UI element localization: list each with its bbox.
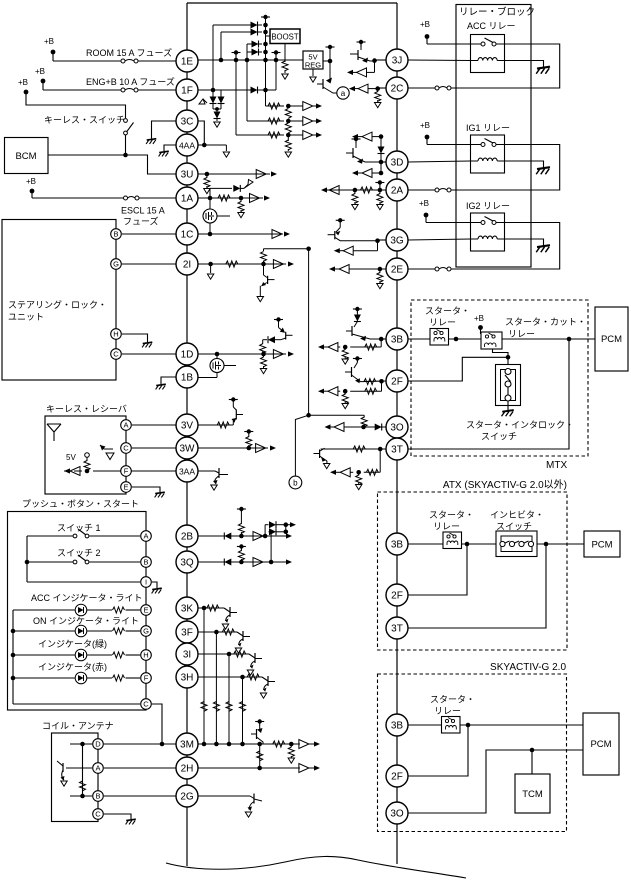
wire C coil to ground (104, 814, 131, 819)
svg-text:2H: 2H (181, 763, 194, 774)
svg-text:3H: 3H (181, 672, 194, 683)
svg-text:1C: 1C (181, 229, 194, 240)
svg-text:ESCL 15 A: ESCL 15 A (121, 206, 165, 216)
box BOOST converter (270, 29, 300, 44)
wire 3D to IG1 relay coil (408, 161, 471, 162)
wire starter relay to inhibitor (462, 543, 497, 545)
wire SKY 2F up (408, 725, 468, 776)
relay starter SKYACTIV (442, 717, 461, 734)
wire 1E to 5V REG (198, 59, 303, 61)
power +B feed for keyless switch (18, 78, 28, 94)
diode matrix vertical from 1E a (220, 32, 222, 60)
svg-text:2G: 2G (180, 791, 194, 802)
box PCM MTX (595, 307, 628, 371)
box 5V REG (303, 51, 323, 70)
node junction starter relay out (454, 337, 459, 342)
svg-text:2A: 2A (391, 185, 404, 196)
wire terminal G to 2I (122, 263, 176, 265)
fuse ENG+B 10A (121, 88, 125, 92)
node b link (295, 415, 308, 476)
receiver internal transistor on C line (100, 445, 114, 460)
connector pin 2A (386, 179, 408, 201)
connector pin 1B (176, 366, 198, 388)
svg-text:5V: 5V (66, 453, 76, 462)
connector pin 3T (386, 438, 408, 460)
box SKYACTIV dashed (378, 674, 567, 832)
power +B feed ACC relay (420, 20, 471, 44)
svg-text:スイッチ: スイッチ (481, 432, 517, 442)
box TCM (515, 774, 550, 813)
svg-text:スイッチ 1: スイッチ 1 (57, 523, 101, 533)
svg-text:G: G (143, 627, 149, 636)
connector pin 2E (386, 258, 408, 280)
wire 2H row (198, 764, 320, 773)
resistor below 2A junction b (379, 190, 381, 194)
wire ATX 2F up (408, 544, 467, 595)
wire A to 2H (104, 767, 176, 769)
connector pin 2I (176, 253, 198, 275)
wire +B to 1F (43, 89, 121, 91)
wire 3V row (198, 422, 233, 428)
svg-text:ATX (SKYACTIV-G 2.0以外): ATX (SKYACTIV-G 2.0以外) (443, 479, 567, 491)
connector pin 2H (176, 757, 198, 779)
transistor at 3V (229, 397, 243, 425)
svg-text:スタータ・インタロック・: スタータ・インタロック・ (466, 420, 574, 430)
wire 3AA row (198, 468, 228, 490)
svg-text:3I: 3I (183, 649, 191, 660)
wire 3T left (321, 446, 386, 452)
ground arrow below (352, 205, 358, 210)
svg-text:1B: 1B (181, 372, 194, 383)
svg-text:3Q: 3Q (180, 557, 194, 568)
wire ACC coil to ground (505, 61, 544, 68)
node a (337, 87, 349, 99)
ground IG1 relay (537, 167, 550, 169)
svg-text:3C: 3C (181, 116, 194, 127)
svg-text:スタータ・: スタータ・ (430, 695, 475, 705)
signal out 3B (318, 339, 381, 352)
connector pin 1D (176, 343, 198, 365)
wire 2G row with transistor (198, 794, 262, 818)
svg-text:B: B (95, 792, 100, 801)
wire common to I (27, 581, 140, 583)
wire +B to keyless switch (26, 92, 126, 118)
svg-text:スタータ・: スタータ・ (425, 306, 470, 316)
transistor below 2I (257, 264, 274, 302)
wire ATX 3B to starter relay (408, 543, 443, 545)
power tap stub at 276 (272, 52, 281, 54)
switch starter interlock (496, 365, 521, 406)
svg-text:3B: 3B (391, 539, 404, 550)
svg-text:+B: +B (474, 314, 484, 323)
wire IG2 switch to 2E (451, 223, 560, 270)
terminal A (121, 420, 132, 431)
terminal H (111, 329, 122, 340)
terminal A (141, 531, 152, 542)
relay IG1 (471, 135, 505, 173)
node junction switch2 tap (25, 560, 30, 565)
relay starter cut (481, 332, 502, 349)
node junction SKY 2F tap (466, 723, 471, 728)
svg-text:1D: 1D (181, 349, 194, 360)
connector pin 2B (176, 525, 198, 547)
wire C to 3M net (152, 704, 162, 744)
wire left main bus of push button start unit (186, 3, 188, 866)
wire indicator common feed (12, 610, 14, 704)
svg-text:+B: +B (26, 177, 36, 186)
svg-text:3M: 3M (180, 739, 194, 750)
switch keyless (124, 119, 134, 135)
diode matrix vertical from 1E b (246, 44, 248, 60)
wire D internal (70, 743, 92, 745)
signal out below 3J (347, 61, 375, 77)
ground at 3C (147, 139, 157, 140)
resistor coil antenna (80, 781, 86, 791)
wire starter relay to cut relay (449, 338, 482, 340)
wire 4AA to ground (164, 145, 176, 151)
wire 2A left with dividers (321, 186, 386, 195)
relay ACC (471, 35, 505, 73)
wire internal resistor leg (82, 744, 84, 796)
wire switch common (26, 536, 28, 582)
ground at steering lock H (143, 342, 153, 343)
wire I to ground (152, 582, 157, 588)
diode row3 (247, 43, 262, 45)
ground arrow below b (377, 205, 383, 210)
wire starter relay to PCM SKY (460, 724, 583, 726)
svg-text:E: E (143, 606, 148, 615)
connector pin 1E (176, 50, 198, 72)
wire top link between buses (187, 2, 397, 4)
connector pin 3C (176, 110, 198, 132)
wire 3C to 4AA link (198, 121, 204, 145)
resistor in receiver 5V (84, 461, 90, 471)
svg-text:リレー: リレー (508, 329, 535, 339)
wire 1B to FET (197, 377, 217, 379)
transistor at a-circle (317, 61, 337, 93)
transistor above 3M (251, 719, 264, 744)
wire ATX 3T up (408, 544, 546, 628)
svg-text:H: H (113, 330, 118, 339)
svg-text:IG2 リレー: IG2 リレー (466, 201, 510, 211)
svg-text:ON インジケータ・ライト: ON インジケータ・ライト (33, 616, 139, 626)
ground arrow below 3T out (356, 485, 362, 490)
connector pin 3K (176, 597, 198, 619)
svg-text:C: C (143, 700, 149, 709)
resistor below 3B out (344, 347, 346, 350)
svg-text:スタータ・カット・: スタータ・カット・ (505, 317, 586, 327)
ground starter interlock (502, 410, 514, 412)
resistor divider rows 2-3 (285, 123, 291, 133)
svg-text:B: B (113, 230, 118, 239)
wire 3H row with transistor (198, 674, 275, 698)
node junction ATX 3T tap (544, 542, 549, 547)
wire 3I row with transistor (198, 651, 262, 675)
fuse ESCL 15A (124, 196, 128, 200)
node junctions on rail (263, 23, 268, 28)
ground arrow below 1A junction (238, 213, 244, 218)
connector pin 3Q (176, 551, 198, 573)
box push button start (8, 512, 147, 711)
power +B feed for ROOM fuse (44, 37, 55, 61)
svg-text:スタータ・: スタータ・ (429, 510, 474, 520)
power +B feed starter cut relay (474, 314, 484, 334)
wire rail to BOOST (266, 35, 271, 37)
bus vertical 3I to 3M (226, 654, 232, 744)
connector pin 2F (386, 584, 408, 606)
wire 3O feed from b rail (309, 415, 368, 427)
node junction F feed (11, 676, 16, 681)
wire A internal (71, 767, 92, 769)
wire 3U output row (198, 170, 277, 179)
svg-text:+B: +B (35, 67, 45, 76)
svg-text:2F: 2F (391, 376, 403, 387)
box keyless receiver (45, 416, 126, 494)
wire BOOST output down (284, 44, 286, 63)
wire 3G to IG2 relay coil (408, 239, 471, 240)
LED green indicator (13, 649, 112, 661)
svg-text:リレー: リレー (434, 706, 461, 716)
node junction H feed (11, 653, 16, 658)
resistor below 3T out (358, 472, 360, 475)
connector pin 3AA (176, 460, 198, 482)
resistor 3M to 2H (259, 744, 261, 768)
node junction G feed (11, 629, 16, 634)
svg-text:3K: 3K (181, 603, 194, 614)
wire 2C left (378, 87, 386, 89)
vertical 276 from 1F (275, 60, 277, 90)
buffer row1 output (266, 102, 323, 111)
power +B feed IG1 relay (420, 121, 471, 145)
fuse on 2A feed (435, 188, 439, 192)
wire common to C (13, 703, 140, 705)
buffer row2 output (247, 60, 322, 126)
connector pin 2G (176, 785, 198, 807)
wire long vertical to b node (306, 247, 311, 418)
svg-text:H: H (143, 651, 148, 660)
svg-text:REG: REG (305, 61, 321, 70)
diode row2 (221, 31, 262, 33)
svg-text:インヒビタ・: インヒビタ・ (490, 510, 544, 520)
antenna symbol (47, 424, 61, 441)
svg-text:C: C (113, 350, 119, 359)
node junctions on 1E wire (219, 58, 224, 63)
wire SKY 3O to PCM (408, 750, 583, 813)
svg-text:+B: +B (419, 199, 429, 208)
wire 2F to interlock net (408, 357, 508, 381)
svg-text:2C: 2C (391, 83, 404, 94)
node junction TCM tap (530, 748, 535, 753)
switch 1 (27, 529, 140, 538)
svg-text:2F: 2F (391, 771, 403, 782)
wire 2F left (363, 379, 386, 385)
relay IG2 (471, 213, 505, 251)
svg-text:G: G (113, 260, 119, 269)
svg-text:スイッチ 2: スイッチ 2 (57, 548, 101, 558)
wire 3C to ground (152, 121, 177, 139)
wire ACC switch to 2C (451, 44, 560, 88)
switch inhibitor (496, 531, 537, 557)
svg-text:B: B (143, 558, 148, 567)
svg-text:3F: 3F (181, 627, 193, 638)
svg-text:キーレス・スイッチ: キーレス・スイッチ (44, 115, 125, 125)
LED ACC indicator (13, 604, 112, 616)
power +B feed for ENG+B fuse (35, 67, 45, 90)
wire F to 3AA (93, 470, 176, 472)
node junctions on 1F wire (211, 88, 216, 93)
wire 3O left (325, 423, 387, 432)
node junction indicator C joins D wire (160, 742, 165, 747)
connector pin 1A (176, 187, 198, 209)
terminal B (111, 229, 122, 240)
transistor at 3T left end (314, 448, 330, 469)
svg-text:SKYACTIV-G 2.0: SKYACTIV-G 2.0 (490, 662, 566, 673)
wire D to 3M (104, 743, 176, 745)
FET switch 1A-1C (203, 198, 230, 234)
wire 5V to F line (86, 470, 88, 471)
svg-text:ユニット: ユニット (8, 312, 44, 322)
wire right main bus of push button start unit (396, 3, 398, 864)
svg-text:ENG+B 10 A フューズ: ENG+B 10 A フューズ (86, 76, 175, 87)
svg-text:ROOM 15 A フューズ: ROOM 15 A フューズ (86, 47, 172, 58)
wire 2I output row (198, 260, 294, 269)
ground at I (152, 588, 162, 589)
svg-text:A: A (123, 421, 128, 430)
connector pin 1C (176, 223, 198, 245)
svg-text:IG1 リレー: IG1 リレー (466, 123, 510, 133)
wire 3W row (198, 444, 276, 453)
terminal C (111, 349, 122, 360)
ground arrow below 3M junction (288, 758, 294, 763)
fuse on 2E feed (435, 267, 439, 271)
LED ON indicator (13, 625, 112, 637)
wire 2I sense to rail (264, 248, 309, 250)
connector pin 3O (386, 416, 408, 438)
wire E to ground (132, 487, 160, 492)
svg-text:MTX: MTX (546, 460, 567, 471)
signal out 3G (334, 241, 378, 256)
wire 3M row (198, 740, 320, 749)
wire terminal B to 1C (122, 233, 176, 235)
svg-text:3O: 3O (390, 808, 404, 819)
svg-text:4AA: 4AA (179, 140, 195, 150)
connector pin 3T (386, 617, 408, 639)
wire terminal C to 1D (122, 353, 176, 355)
transistor above 2F (345, 356, 363, 383)
signal out 2C (349, 84, 378, 93)
resistor ACC indicator (113, 607, 125, 613)
wire 1F inside (198, 89, 276, 91)
svg-text:2F: 2F (391, 590, 403, 601)
terminal E (121, 482, 132, 493)
svg-text:+B: +B (420, 20, 430, 29)
pullup at 2B (237, 507, 246, 536)
wire 3J to ACC relay coil (408, 59, 471, 62)
diode on 1F wire (251, 87, 258, 94)
node junction 2F tap (506, 355, 511, 360)
wire 2B row (198, 532, 292, 541)
ground arrow below row3 (285, 152, 291, 157)
LED red indicator (13, 672, 112, 684)
svg-text:2B: 2B (181, 531, 194, 542)
connector pin 3O (386, 802, 408, 824)
connector pin 3V (176, 414, 198, 436)
ground arrow below BOOST (284, 70, 286, 73)
box relay block (456, 5, 531, 268)
wire inhibitor to PCM (537, 543, 584, 545)
svg-text:ステアリング・ロック・: ステアリング・ロック・ (8, 299, 107, 310)
ground at 4AA (159, 151, 169, 152)
box PCM SKYACTIV (583, 713, 619, 775)
wire 3Q to diode gate (270, 532, 272, 562)
wire 3B to starter relay (408, 338, 430, 340)
node junction 3B (379, 337, 384, 342)
cluster at 3D (352, 132, 386, 177)
svg-text:A: A (95, 764, 100, 773)
ground arrow below 5V REG (312, 69, 314, 76)
wire B internal (70, 795, 92, 797)
bus vertical 3K to 3M (201, 608, 207, 744)
resistor above 2I junction (263, 249, 265, 251)
svg-text:D: D (95, 740, 101, 749)
resistor below 3M junction (290, 744, 292, 747)
power tap on rail (261, 16, 270, 18)
ground arrow below 1D junction (260, 369, 266, 374)
power tap above 2A junction (375, 182, 384, 184)
wire cut relay coil to interlock (493, 349, 509, 365)
svg-text:ACC リレー: ACC リレー (467, 21, 516, 31)
svg-text:3D: 3D (391, 157, 404, 168)
connector pin 3U (176, 163, 198, 185)
resistor below BOOST wire (282, 61, 288, 71)
box ATX dashed (378, 492, 568, 650)
svg-text:F: F (124, 467, 129, 476)
diode row1 (213, 24, 262, 26)
transistor at 3G (328, 218, 378, 241)
svg-text:2E: 2E (391, 264, 404, 275)
resistor below 2C junction (377, 89, 379, 92)
wire 3B left (381, 338, 386, 340)
diode matrix rail vertical (265, 17, 267, 106)
resistor ON indicator (113, 628, 125, 634)
connector pin 3D (386, 151, 408, 173)
wire interlock to ground (507, 401, 509, 410)
resistor below 1A junction (240, 198, 242, 202)
ground arrow below 3B out (342, 359, 348, 364)
terminal F (141, 673, 152, 684)
connector pin 2F (386, 370, 408, 392)
svg-text:C: C (123, 444, 129, 453)
svg-text:1A: 1A (181, 193, 194, 204)
svg-text:1F: 1F (181, 85, 193, 96)
connector pin 2F (386, 765, 408, 787)
wire TCM to junction (531, 750, 533, 774)
wire 3F row with transistor (198, 629, 250, 653)
switch 2 (27, 555, 140, 564)
fuse on 2C feed (435, 86, 439, 90)
resistor below 2E junction (379, 269, 381, 273)
node junction 3T feed (567, 337, 572, 342)
svg-text:コイル・アンテナ: コイル・アンテナ (42, 721, 114, 731)
FET switch 1D-1B (210, 354, 236, 378)
svg-text:3T: 3T (391, 623, 403, 634)
svg-text:3B: 3B (391, 334, 404, 345)
terminal G (111, 259, 122, 270)
wire SKY 3B to starter relay (408, 724, 442, 726)
svg-text:キーレス・レシーバ: キーレス・レシーバ (46, 404, 127, 414)
wire 4AA row (198, 143, 230, 158)
resistor below row3 (287, 135, 289, 141)
